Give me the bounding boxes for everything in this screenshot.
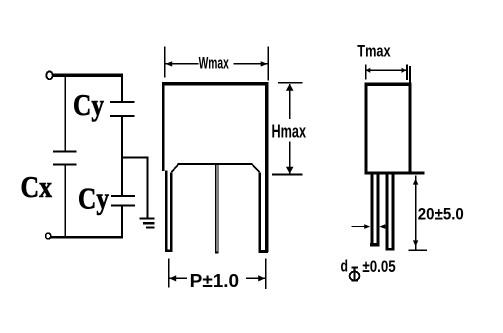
lead center line right [217,165,218,254]
dimension Wmax left extension line [164,46,166,77]
dimension P left arrowhead [169,275,176,281]
dimension Tmax right extension line [406,64,408,80]
lead left bottom cap [165,249,173,252]
label phi subscript [350,266,360,281]
dimension 20 bottom tick [409,249,428,251]
lead right inner line [258,172,261,253]
svg-text:P±1.0: P±1.0 [190,270,239,291]
dimension d left line [351,226,365,227]
lead center line left [215,165,216,254]
lead right bottom cap [258,250,268,253]
dimension P right arrowhead [258,275,265,281]
wire top horizontal [53,74,124,77]
dimension Wmax right extension line [267,46,269,80]
svg-text:Cy: Cy [73,87,104,122]
wire right rail lower [121,207,123,237]
dimension P right extension line [265,259,267,290]
dimension Hmax bottom tick [272,174,302,176]
capacitor Cy1 top plate [110,101,135,103]
dimension 20 down arrowhead [413,240,418,246]
terminal top-left [46,71,52,79]
wire ground stem [147,157,149,218]
dimension Wmax line right segment [233,63,267,65]
dimension Tmax left arrowhead [366,68,371,73]
terminal bottom-left [46,233,51,239]
capacitor Cy2 top plate [111,195,135,197]
dimension Hmax line lower segment [289,141,291,173]
side lead 2 left line [386,175,389,251]
dimension P line left segment [170,278,188,280]
capacitor Cx top plate [53,150,77,152]
capacitor Cy2 bottom plate [111,205,135,207]
capacitor Cx bottom plate [53,163,77,165]
wire ground branch horizontal [121,156,148,158]
lead left inner line [170,172,173,250]
dimension Tmax left extension line [365,64,367,79]
dimension Tmax right edge extension line [409,66,411,82]
svg-text:Cy: Cy [78,181,109,216]
dimension Tmax right arrowhead [402,68,407,73]
capacitor body front view right edge [265,82,269,252]
wire right rail upper [121,76,123,101]
ground bar 1 [139,217,154,219]
dimension d right line [384,226,389,227]
capacitor body side view right edge [409,82,412,174]
ground bar 3 [146,226,155,228]
dimension Wmax right arrowhead [261,61,268,66]
side lead 2 bottom cap [386,248,395,250]
svg-text:20±5.0: 20±5.0 [418,204,464,223]
dimension Hmax line upper segment [289,84,291,119]
capacitor body side view bottom edge extended [364,172,424,175]
dimension Tmax line [366,70,406,71]
dimension Hmax up arrowhead [286,84,294,91]
wire left rail lower [65,166,67,237]
capacitor Cy1 bottom plate [110,115,135,117]
dimension P line right segment [246,278,265,280]
capacitor body bottom right chamfer [252,164,260,172]
dimension d right arrowhead [379,224,385,229]
side lead 2 right line [392,175,395,251]
svg-text:Tmax: Tmax [357,41,391,60]
side lead 1 left line [370,175,373,247]
capacitor body side view top edge [364,82,411,86]
dimension Hmax top tick [278,82,302,84]
capacitor body bottom plateau [178,163,253,165]
svg-text:Hmax: Hmax [272,122,307,142]
side lead 1 bottom cap [370,243,379,247]
wire right rail middle [121,117,123,195]
side lead 1 right line [377,175,380,247]
svg-text:d: d [341,257,349,276]
dimension P left extension line [168,259,170,288]
svg-text:±0.05: ±0.05 [362,257,395,276]
capacitor body front view left edge [162,82,165,171]
lead left outer line [165,171,168,252]
capacitor body bottom left chamfer [171,164,178,172]
ground bar 2 [143,222,155,225]
dimension Wmax line left segment [166,63,199,65]
dimension Wmax left arrowhead [165,61,172,66]
capacitor body side view left edge [364,82,367,174]
svg-text:Cx: Cx [21,169,53,204]
dimension Hmax down arrowhead [286,167,294,174]
wire bottom horizontal [51,236,123,239]
wire left rail upper [65,76,67,150]
dimension 20 line [415,175,417,249]
capacitor body front view top edge [162,82,268,86]
dimension d left arrowhead [364,224,370,229]
dimension 20 up arrowhead [413,178,418,184]
svg-text:Wmax: Wmax [199,54,230,73]
